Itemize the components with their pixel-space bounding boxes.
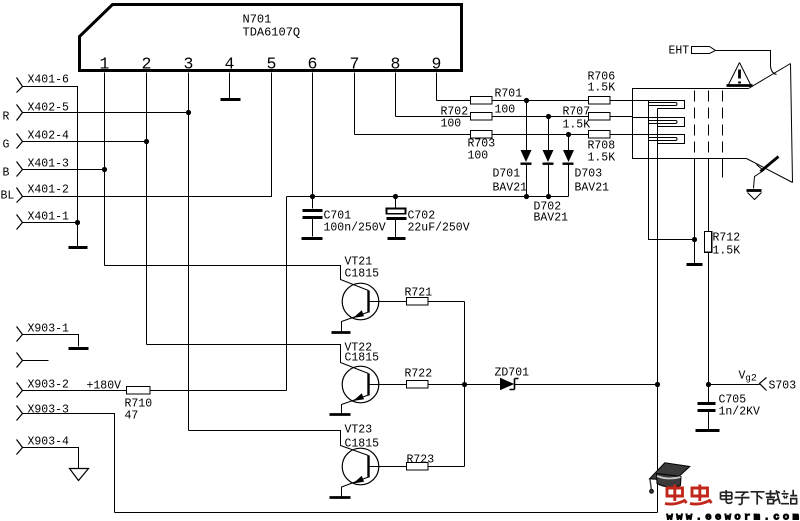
capacitor C705 plates	[698, 404, 716, 411]
connector X903-4 chevron	[17, 440, 23, 455]
svg-text:C1815: C1815	[345, 352, 380, 365]
wire aquadag to ground	[754, 165, 764, 189]
resistor R707	[589, 113, 611, 120]
connector X903-3 chevron	[17, 406, 23, 421]
CRT heater hairpin gun2	[649, 121, 678, 124]
wire +180V riser	[286, 197, 288, 391]
wire pin9 vertical	[436, 73, 438, 101]
svg-text:R723: R723	[407, 454, 435, 467]
svg-text:+180V: +180V	[87, 380, 122, 393]
svg-text:22uF/250V: 22uF/250V	[408, 222, 470, 235]
op-amp U1 : IC N701 TDA6107Q body	[80, 5, 462, 71]
connector X401-1 chevron	[17, 215, 23, 230]
svg-text:X402-5: X402-5	[28, 102, 70, 115]
transistor Q3 VT23	[189, 431, 379, 498]
svg-text:C1815: C1815	[345, 268, 380, 281]
CRT heater hairpin gun3	[649, 138, 678, 141]
node pin6 bus	[310, 194, 315, 199]
node pin3-R	[186, 110, 191, 115]
svg-text:BAV21: BAV21	[575, 182, 610, 195]
capacitor C702 bottom plate	[387, 217, 407, 220]
capacitor C702 leads	[395, 197, 397, 238]
wire pin1 vertical	[104, 73, 106, 266]
warning triangle base	[727, 84, 753, 87]
connector blank wire	[23, 360, 49, 362]
svg-text:X903-4: X903-4	[28, 436, 70, 449]
svg-text:G: G	[3, 139, 10, 152]
svg-text:S703: S703	[769, 380, 797, 393]
connector X903-2 chevron	[17, 383, 23, 398]
connector X401-6 chevron	[17, 78, 23, 93]
svg-text:100n/250V: 100n/250V	[324, 222, 386, 235]
diode D703 wire	[568, 135, 570, 197]
CRT funnel bottom slant	[747, 159, 793, 183]
svg-text:B: B	[3, 167, 10, 180]
node heater G1	[692, 237, 697, 242]
svg-text:1: 1	[100, 55, 110, 74]
connector X401-2 chevron	[17, 188, 23, 203]
svg-text:5: 5	[267, 55, 277, 74]
resistor R712	[705, 232, 712, 253]
svg-text:C1815: C1815	[345, 438, 380, 451]
dashed grid lines in CRT	[695, 91, 723, 159]
wire heater rail right	[657, 109, 659, 385]
resistor R706	[589, 97, 611, 104]
ground C701 bar	[302, 237, 323, 240]
svg-text:7: 7	[350, 55, 360, 74]
CRT cathode gun2 hook	[633, 118, 685, 127]
wire bottom rail	[115, 512, 658, 514]
svg-text:BAV21: BAV21	[534, 212, 569, 225]
node heater ZD	[655, 382, 660, 387]
EHT connector flag	[692, 47, 716, 54]
svg-text:Vg2: Vg2	[739, 370, 757, 385]
wire right bus of R72x	[464, 302, 466, 467]
wire collector VT21 row	[369, 301, 465, 303]
diode D701	[521, 150, 532, 165]
connector X402-4 chevron	[17, 134, 23, 149]
wire row3 pin7 to CRT	[355, 134, 633, 136]
capacitor C705 leads	[708, 385, 710, 430]
wire pin8 vertical	[395, 73, 397, 117]
resistor R722	[407, 381, 429, 388]
svg-text:www.eeworm.com: www.eeworm.com	[667, 512, 800, 521]
svg-text:R707: R707	[563, 106, 591, 119]
connector X401-1 wire	[23, 222, 78, 224]
resistor R708	[589, 131, 611, 138]
svg-text:BL: BL	[1, 190, 15, 203]
svg-text:6: 6	[308, 55, 318, 74]
wire pin7 vertical	[354, 73, 356, 135]
ground X903-4 triangle	[70, 469, 89, 481]
CRT gun box	[633, 89, 749, 159]
CRT funnel right edge	[791, 64, 793, 183]
node pin1-B	[102, 167, 107, 172]
logo cap silver band	[657, 476, 681, 479]
wire Vg2 row	[709, 384, 760, 386]
resistor R703	[471, 131, 493, 138]
svg-text:X903-3: X903-3	[28, 404, 70, 417]
node VDD bus +180V rail	[287, 196, 569, 198]
logo black chinese text	[721, 490, 798, 505]
diode D702	[543, 150, 554, 165]
ground X401-6 bar	[69, 246, 88, 249]
svg-text:N701: N701	[243, 13, 272, 27]
connector X402-5 chevron	[17, 105, 23, 121]
svg-text:X401-6: X401-6	[28, 74, 70, 87]
svg-text:X401-1: X401-1	[28, 211, 70, 224]
svg-text:9: 9	[432, 55, 442, 74]
svg-text:D701: D701	[493, 168, 521, 181]
svg-text:VT23: VT23	[345, 424, 373, 437]
logo cap base	[657, 474, 682, 488]
CRT aquadag tick	[761, 157, 779, 172]
resistor R723	[407, 463, 429, 470]
CRT cathode gun3 hook	[633, 135, 685, 144]
svg-text:4: 4	[225, 55, 235, 74]
ground C702 bar	[388, 237, 406, 240]
svg-text:1n/2KV: 1n/2KV	[719, 406, 761, 419]
node D702 row	[546, 114, 551, 119]
wire pin2 vertical	[146, 73, 148, 345]
node X401-1 gnd	[75, 220, 80, 225]
wire grid G1 below box	[694, 159, 696, 264]
warning exclamation	[738, 70, 741, 79]
connector X402-5 wire R	[23, 112, 189, 114]
svg-text:1.5K: 1.5K	[588, 152, 616, 165]
resistor R721	[407, 298, 429, 305]
CRT funnel top slant	[749, 64, 791, 89]
wire pin4 stub	[229, 73, 231, 99]
node D701 row	[524, 98, 529, 103]
svg-text:X903-1: X903-1	[28, 323, 70, 336]
node D703 row	[566, 132, 571, 137]
node Vg2	[706, 382, 711, 387]
svg-text:R: R	[3, 111, 10, 124]
resistor R710	[127, 387, 151, 394]
wire collector VT22 row	[369, 384, 465, 386]
svg-text:100: 100	[495, 104, 516, 117]
node D701 bus	[524, 194, 529, 199]
connector blank chevron	[17, 353, 23, 368]
svg-text:100: 100	[468, 150, 489, 163]
svg-text:3: 3	[184, 55, 194, 74]
connector X401-3 wire B	[23, 169, 105, 171]
svg-text:D703: D703	[575, 168, 603, 181]
transistor Q2 VT22	[147, 345, 379, 415]
diode D703	[563, 150, 575, 165]
capacitor C702 top plate box	[387, 209, 406, 214]
connector X903-4 wire	[23, 448, 79, 469]
capacitor C701 leads	[312, 197, 314, 237]
connector X401-6 wire	[23, 87, 78, 247]
transistor Q1 VT21	[105, 266, 379, 333]
svg-text:X401-3: X401-3	[28, 158, 70, 171]
wire pin6 vertical	[312, 73, 314, 197]
svg-text:TDA6107Q: TDA6107Q	[243, 26, 301, 40]
wire row1 pin9 to CRT	[437, 100, 633, 102]
watermark logo eeworm	[650, 463, 800, 521]
connector chevrons left	[17, 78, 767, 481]
node C702 bus	[393, 194, 398, 199]
CRT heater hairpin gun1	[649, 103, 678, 106]
wire +180V row X903-2	[23, 390, 287, 392]
ground CRT bar	[747, 189, 762, 192]
wire EHT to anode	[716, 51, 777, 75]
warning triangle	[729, 63, 751, 85]
grid G3 dashed	[722, 91, 724, 159]
logo tassel	[650, 479, 651, 490]
ground G1 bar	[687, 263, 703, 266]
resistor R701	[471, 97, 493, 104]
diode D702 wire	[548, 117, 550, 197]
zener diode ZD701	[501, 379, 519, 390]
connector X401-2 wire BL	[23, 196, 272, 198]
node ZD701 bus	[462, 382, 467, 387]
svg-text:X903-2: X903-2	[28, 379, 70, 392]
grid G2 dashed	[708, 91, 710, 159]
grid G1 dashed	[694, 91, 696, 159]
svg-text:1.5K: 1.5K	[588, 82, 616, 95]
logo red worm char 1	[665, 485, 687, 505]
CRT cathode gun1 hook	[633, 101, 685, 109]
wire pin3 vertical	[188, 73, 190, 431]
svg-text:47: 47	[125, 410, 139, 423]
svg-text:ZD701: ZD701	[495, 367, 530, 380]
svg-text:2: 2	[142, 55, 152, 74]
capacitor C701 plates	[303, 211, 323, 218]
svg-text:R701: R701	[495, 88, 523, 101]
wire grid G2 below box	[708, 159, 710, 385]
wire row2 pin8 to CRT	[396, 116, 633, 118]
connector X903-1 chevron	[17, 327, 23, 342]
connector X402-4 wire G	[23, 141, 147, 143]
svg-text:BAV21: BAV21	[493, 182, 528, 195]
svg-text:1.5K: 1.5K	[713, 245, 741, 258]
logo cap board	[650, 463, 690, 481]
node pin2-G	[144, 139, 149, 144]
resistor R702	[471, 113, 493, 120]
ground X903-1 bar	[69, 347, 89, 350]
logo red worm char 2	[690, 485, 712, 505]
svg-text:X402-4: X402-4	[28, 130, 70, 143]
wire heater drop to rail	[657, 385, 659, 513]
svg-text:R722: R722	[405, 368, 433, 381]
ground pin4 bar	[221, 98, 241, 101]
node D702 bus	[546, 194, 551, 199]
ground C705 bar	[696, 429, 720, 432]
connector S703 chevron	[760, 378, 767, 391]
svg-text:1.5K: 1.5K	[563, 119, 591, 132]
diode D701 wire	[526, 101, 528, 197]
svg-text:X401-2: X401-2	[28, 184, 70, 197]
wire ZD701 row	[465, 384, 658, 386]
svg-text:EHT: EHT	[669, 45, 690, 58]
svg-text:100: 100	[441, 118, 462, 131]
connector X903-3 wire	[23, 414, 115, 513]
connector X903-1 wire	[23, 335, 79, 347]
ground CRT vee	[748, 193, 762, 200]
wire heater rail left	[649, 101, 695, 240]
svg-text:R712: R712	[713, 232, 741, 245]
wire collector VT23 row	[369, 466, 465, 468]
svg-text:8: 8	[391, 55, 401, 74]
wire grid3 stub below box	[722, 159, 724, 178]
connector X401-3 chevron	[17, 162, 23, 177]
wire pin5 vertical	[23, 73, 272, 197]
svg-text:R721: R721	[405, 287, 433, 300]
